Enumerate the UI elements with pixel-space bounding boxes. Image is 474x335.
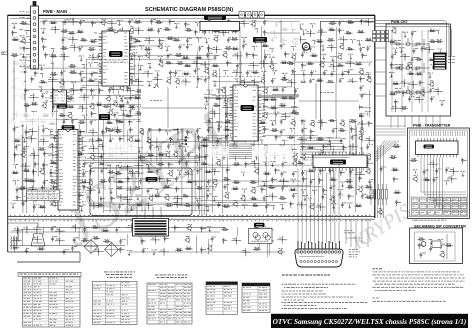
capacitor C160 bbox=[63, 249, 69, 255]
transistor Q85 bbox=[240, 195, 245, 202]
resistor R158 bbox=[69, 179, 77, 182]
resistor R164 bbox=[232, 181, 240, 184]
white space bbox=[208, 146, 292, 157]
resistor R209 bbox=[415, 58, 423, 61]
wire bbox=[27, 186, 37, 194]
wire bbox=[176, 116, 182, 120]
resistor R6 bbox=[347, 21, 355, 24]
capacitor C15 bbox=[227, 37, 233, 43]
wire bbox=[261, 71, 266, 76]
resistor R107 bbox=[338, 113, 346, 116]
wire bbox=[300, 101, 310, 109]
capacitor C174 bbox=[433, 177, 439, 183]
wire bbox=[112, 204, 221, 206]
capacitor C51 bbox=[271, 78, 276, 84]
wire bbox=[29, 57, 34, 62]
capacitor C33 bbox=[301, 52, 307, 58]
resistor R5 bbox=[329, 22, 337, 25]
wire bbox=[274, 98, 276, 125]
wire bbox=[56, 94, 58, 193]
resistor R162 bbox=[186, 180, 194, 183]
transistor Q81 bbox=[67, 195, 73, 202]
op-amp IC701 micom bbox=[50, 130, 86, 211]
diode D74 bbox=[342, 145, 347, 151]
wire bbox=[267, 193, 277, 201]
table: soft-touch/remocon header bbox=[104, 272, 135, 277]
wire bbox=[242, 205, 248, 209]
wire bbox=[447, 175, 457, 183]
wire bbox=[12, 96, 17, 100]
resistor R198 bbox=[81, 239, 89, 242]
resistor R64 bbox=[99, 81, 107, 84]
resistor R168 bbox=[19, 187, 27, 190]
resistor R175 bbox=[289, 188, 297, 191]
capacitor C40 bbox=[174, 70, 180, 76]
diode D140 bbox=[395, 200, 401, 206]
resistor R16 bbox=[281, 28, 289, 31]
resistor R126 bbox=[287, 136, 295, 139]
diode D3 bbox=[169, 19, 175, 25]
resistor R187 bbox=[135, 203, 143, 206]
resistor R70 bbox=[135, 90, 143, 93]
wire bbox=[143, 70, 153, 78]
resistor R194 bbox=[101, 229, 109, 232]
wire bbox=[361, 113, 363, 175]
resistor R11 bbox=[146, 28, 154, 31]
wire bbox=[79, 125, 81, 214]
wire bbox=[239, 19, 249, 27]
diode D51 bbox=[225, 111, 231, 117]
wire bbox=[253, 123, 258, 127]
wire bbox=[89, 202, 99, 210]
diode D135 bbox=[461, 158, 467, 164]
capacitor C177 bbox=[420, 252, 426, 258]
capacitor C78 bbox=[158, 127, 163, 133]
capacitor C122 bbox=[196, 168, 202, 174]
diode D69 bbox=[169, 137, 173, 143]
capacitor C55 bbox=[108, 88, 112, 94]
capacitor C180 bbox=[113, 112, 118, 118]
capacitor C58 bbox=[360, 85, 364, 91]
resistor R57 bbox=[50, 73, 58, 76]
wire bbox=[104, 210, 208, 212]
wire bbox=[231, 153, 241, 161]
diode D9 bbox=[263, 30, 268, 36]
transistor Q56 bbox=[127, 136, 133, 143]
resistor R167 bbox=[345, 180, 353, 183]
capacitor C14 bbox=[186, 38, 192, 44]
wire bbox=[231, 237, 241, 245]
wire bbox=[102, 181, 206, 183]
resistor R171 bbox=[163, 185, 171, 188]
wire bbox=[340, 155, 344, 160]
wire bbox=[301, 70, 305, 75]
wire bbox=[12, 24, 18, 29]
diode D86 bbox=[330, 162, 335, 168]
wire bbox=[183, 170, 193, 178]
capacitor C20 bbox=[186, 44, 192, 50]
resistor R30 bbox=[327, 39, 335, 42]
capacitor C126 bbox=[349, 169, 354, 175]
table: pal/secam header bbox=[155, 275, 187, 278]
wire bbox=[33, 197, 38, 202]
capacitor C22 bbox=[242, 43, 247, 49]
resistor R218 bbox=[417, 238, 425, 241]
transistor Q32 bbox=[253, 88, 258, 95]
resistor R75 bbox=[50, 95, 58, 98]
wire bbox=[192, 60, 202, 68]
capacitor C131 bbox=[207, 179, 213, 185]
resistor R141 bbox=[105, 163, 113, 166]
wire bbox=[375, 27, 451, 56]
connector CN701 board-to-board bbox=[373, 31, 389, 42]
wire bbox=[171, 63, 277, 65]
wire bbox=[270, 151, 280, 159]
white space bbox=[299, 83, 359, 119]
resistor R100 bbox=[42, 114, 50, 117]
transistor Q12 bbox=[222, 52, 227, 59]
transistor Q10 bbox=[116, 54, 121, 61]
resistor R47 bbox=[165, 61, 173, 64]
wire bbox=[193, 180, 301, 182]
wire bbox=[196, 38, 202, 42]
capacitor C179 bbox=[120, 104, 125, 110]
wire bbox=[121, 187, 211, 189]
diode D56 bbox=[179, 118, 183, 124]
connector CRT tube socket bbox=[295, 249, 343, 267]
wire bbox=[120, 98, 126, 102]
transistor Q103 bbox=[377, 209, 382, 216]
transistor Q13 bbox=[291, 54, 297, 61]
resistor R68 bbox=[316, 79, 324, 82]
capacitor C39 bbox=[120, 71, 125, 77]
wire bbox=[61, 22, 107, 24]
resistor R115 bbox=[328, 119, 336, 122]
wire bbox=[108, 86, 118, 94]
wire bbox=[166, 104, 172, 109]
resistor R42 bbox=[182, 56, 190, 59]
capacitor C53 bbox=[339, 78, 344, 84]
capacitor C144 bbox=[361, 193, 366, 199]
op-amp IC101 IF bbox=[200, 22, 240, 34]
title: schematic diagram bbox=[145, 7, 233, 13]
resistor R203 bbox=[185, 247, 193, 250]
transistor Q90 bbox=[186, 225, 192, 232]
diode D65 bbox=[263, 127, 269, 133]
antenna terminal bbox=[33, 2, 36, 5]
capacitor C36 bbox=[60, 70, 65, 76]
capacitor C143 bbox=[322, 194, 326, 200]
transistor Q99 bbox=[412, 176, 418, 183]
capacitor C42 bbox=[246, 70, 252, 76]
wire bbox=[363, 159, 373, 167]
transistor Q1 bbox=[100, 19, 106, 26]
wire bbox=[329, 88, 334, 92]
wire bbox=[86, 58, 213, 60]
transistor Q36 bbox=[157, 94, 162, 101]
resistor R169 bbox=[116, 186, 124, 189]
capacitor C28 bbox=[97, 53, 103, 59]
diode D20 bbox=[207, 46, 212, 52]
resistor R58 bbox=[69, 71, 77, 74]
resistor R160 bbox=[99, 180, 107, 183]
resistor R204 bbox=[253, 247, 261, 250]
wire bbox=[11, 203, 16, 208]
wire bbox=[303, 76, 305, 145]
wire bbox=[104, 36, 204, 38]
wire bbox=[117, 20, 123, 25]
diode D58 bbox=[368, 121, 373, 127]
capacitor C112 bbox=[71, 159, 76, 165]
diode D105 bbox=[41, 185, 45, 191]
svg-text:PWB-CRT: PWB-CRT bbox=[391, 20, 409, 24]
capacitor C120 bbox=[101, 168, 107, 174]
resistor R86 bbox=[23, 104, 31, 107]
wire bbox=[126, 43, 136, 51]
resistor R170 bbox=[134, 187, 142, 190]
diode D126 bbox=[269, 238, 275, 244]
transistor Q58 bbox=[358, 135, 363, 142]
resistor R4 bbox=[155, 21, 163, 24]
resistor R21 bbox=[29, 38, 37, 41]
resistor R35 bbox=[224, 47, 232, 50]
capacitor C123 bbox=[281, 171, 287, 177]
transistor Q4 bbox=[129, 27, 134, 34]
capacitor C43 bbox=[310, 70, 316, 76]
wire bbox=[363, 18, 373, 26]
wire bbox=[399, 48, 405, 53]
capacitor C29 bbox=[167, 53, 172, 59]
transistor Q42 bbox=[67, 113, 72, 120]
wire bbox=[98, 115, 104, 120]
wire bbox=[115, 144, 125, 152]
resistor R91 bbox=[128, 105, 136, 108]
diode D24 bbox=[252, 53, 258, 59]
wire bbox=[232, 127, 242, 135]
transistor Q59 bbox=[250, 144, 255, 151]
diode D120 bbox=[174, 225, 180, 231]
diode D68 bbox=[119, 136, 124, 142]
wire bbox=[224, 86, 226, 151]
wire bbox=[139, 46, 145, 50]
resistor R108 bbox=[357, 114, 365, 117]
transistor Q70 bbox=[117, 162, 122, 169]
diode D132 bbox=[419, 80, 424, 86]
wire bbox=[165, 46, 171, 51]
capacitor C74 bbox=[280, 119, 285, 125]
capacitor C169 bbox=[408, 96, 414, 102]
wire bbox=[305, 29, 315, 37]
wire bbox=[340, 182, 345, 187]
wire bbox=[98, 142, 108, 150]
wire bbox=[194, 182, 199, 186]
capacitor C93 bbox=[351, 135, 357, 141]
capacitor C145 bbox=[22, 201, 27, 207]
wire bbox=[68, 36, 78, 44]
wire bbox=[243, 137, 248, 142]
wire bbox=[123, 107, 125, 149]
diode D133 bbox=[402, 90, 407, 96]
wire bbox=[127, 77, 137, 85]
wire bbox=[305, 87, 315, 95]
resistor R155 bbox=[23, 179, 31, 182]
resistor R211 bbox=[407, 72, 415, 75]
svg-text:OTVC Samsung CK5027Z/WELTSX ch: OTVC Samsung CK5027Z/WELTSX chassis P58S… bbox=[273, 317, 467, 326]
resistor R50 bbox=[211, 64, 219, 67]
wire bbox=[212, 95, 308, 97]
wire bbox=[204, 38, 210, 43]
resistor R39 bbox=[11, 54, 19, 57]
wire bbox=[102, 159, 146, 161]
resistor R142 bbox=[157, 163, 165, 166]
capacitor C149 bbox=[217, 202, 221, 208]
wire bbox=[428, 160, 438, 168]
wire bbox=[259, 60, 269, 68]
wire bbox=[279, 22, 285, 26]
resistor R73 bbox=[272, 88, 280, 91]
diode D95 bbox=[340, 170, 345, 176]
wire bbox=[357, 120, 367, 128]
diode D48 bbox=[358, 104, 363, 110]
diode D112 bbox=[78, 193, 83, 199]
wire bbox=[69, 87, 79, 95]
resistor R134 bbox=[107, 154, 115, 157]
resistor R56 bbox=[19, 70, 27, 73]
transistor Q67 bbox=[300, 154, 306, 161]
capacitor C85 bbox=[53, 135, 59, 141]
wire bbox=[115, 142, 117, 196]
wire bbox=[24, 67, 134, 69]
wire bbox=[153, 76, 163, 84]
wire bbox=[252, 95, 299, 97]
wire bbox=[252, 46, 258, 50]
diode D106 bbox=[52, 185, 56, 191]
wire bbox=[86, 59, 88, 134]
capacitor C79 bbox=[196, 128, 201, 134]
capacitor C167 bbox=[438, 55, 444, 61]
diode D11 bbox=[338, 28, 344, 34]
resistor R128 bbox=[38, 148, 46, 151]
resistor R213 bbox=[392, 82, 400, 85]
wire bbox=[134, 169, 144, 177]
capacitor C80 bbox=[207, 127, 213, 133]
capacitor C109 bbox=[204, 154, 210, 160]
resistor R96 bbox=[242, 104, 250, 107]
wire bbox=[88, 53, 98, 61]
wire bbox=[393, 48, 397, 53]
resistor R26 bbox=[173, 38, 181, 41]
wire bbox=[241, 248, 251, 256]
capacitor C141 bbox=[263, 196, 268, 202]
transistor Q68 bbox=[319, 151, 324, 158]
diode D41 bbox=[166, 87, 172, 93]
PWB-CRT board outline bbox=[386, 24, 451, 116]
resistor R31 bbox=[365, 38, 373, 41]
wire bbox=[129, 205, 134, 210]
capacitor C27 bbox=[366, 46, 370, 52]
resistor R69 bbox=[326, 81, 334, 84]
diode D122 bbox=[141, 238, 146, 244]
diode D111 bbox=[16, 195, 21, 201]
wire bbox=[327, 138, 333, 143]
transistor Q8 bbox=[157, 43, 163, 50]
wire bbox=[13, 57, 15, 163]
wire bbox=[280, 145, 285, 149]
capacitor C178 bbox=[129, 95, 133, 101]
wire bbox=[87, 197, 91, 201]
resistor R10 bbox=[107, 28, 115, 31]
wire bbox=[32, 226, 42, 234]
wire bbox=[297, 201, 307, 209]
wire bbox=[369, 90, 371, 118]
resistor R144 bbox=[233, 163, 241, 166]
wire bbox=[240, 51, 242, 131]
diode D22 bbox=[44, 52, 50, 58]
resistor R137 bbox=[326, 155, 334, 158]
diode D123 bbox=[164, 236, 169, 242]
resistor R110 bbox=[78, 121, 86, 124]
resistor R46 bbox=[68, 65, 76, 68]
diode D31 bbox=[169, 70, 174, 76]
wire bbox=[82, 84, 145, 86]
wire bbox=[114, 95, 120, 99]
wire bbox=[164, 229, 170, 234]
resistor R55 bbox=[355, 62, 363, 65]
diode D63 bbox=[186, 130, 192, 136]
resistor R207 bbox=[429, 40, 437, 43]
wire bbox=[239, 79, 249, 87]
resistor R92 bbox=[146, 105, 154, 108]
wire bbox=[185, 98, 191, 102]
wire bbox=[126, 223, 136, 231]
wire bbox=[216, 89, 222, 93]
diode D113 bbox=[100, 196, 105, 202]
resistor R116 bbox=[349, 120, 357, 123]
resistor R85 bbox=[339, 96, 347, 99]
capacitor C98 bbox=[81, 145, 87, 151]
wire bbox=[112, 126, 122, 134]
wire bbox=[48, 75, 58, 83]
wire bbox=[444, 181, 450, 185]
transistor Q92 bbox=[207, 245, 213, 252]
resistor R77 bbox=[66, 97, 74, 100]
resistor R23 bbox=[89, 40, 97, 43]
resistor R196 bbox=[252, 227, 260, 230]
wire bbox=[181, 112, 183, 207]
resistor R54 bbox=[336, 64, 344, 67]
diode D110 bbox=[322, 188, 327, 194]
wire bbox=[282, 73, 288, 78]
wire bbox=[38, 116, 40, 176]
wire bbox=[12, 237, 22, 245]
connector CRT socket header bbox=[433, 53, 455, 70]
resistor R76 bbox=[61, 95, 69, 98]
resistor R81 bbox=[269, 98, 277, 101]
capacitor C32 bbox=[264, 54, 270, 60]
capacitor C50 bbox=[204, 77, 210, 83]
wire bbox=[208, 239, 210, 255]
wire bbox=[348, 143, 358, 151]
wire bbox=[127, 143, 137, 151]
wire bbox=[171, 86, 181, 94]
capacitor C151 bbox=[341, 202, 347, 208]
diode bridge D801 bbox=[84, 240, 98, 254]
wire bbox=[348, 54, 353, 59]
capacitor C6 bbox=[263, 20, 268, 26]
wire bbox=[22, 121, 24, 213]
wire bbox=[84, 94, 155, 96]
crystal X501 label bbox=[99, 114, 110, 120]
